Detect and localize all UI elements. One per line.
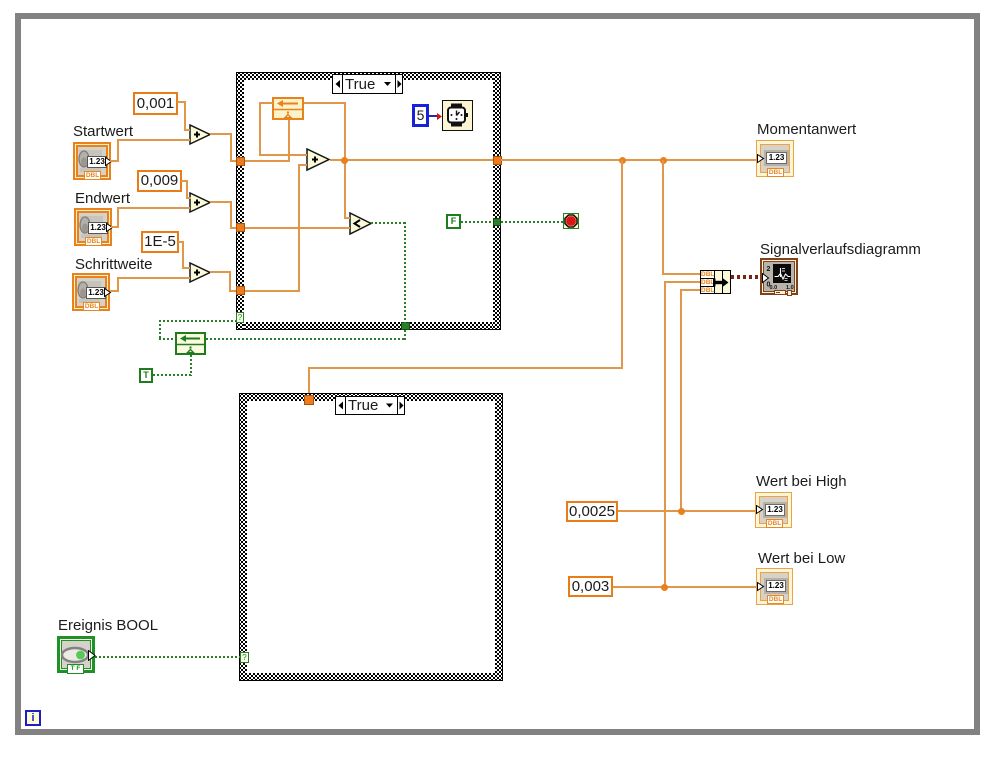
junction dot A4 output [341,157,348,164]
case structure 1 bottom border [236,322,501,330]
case structure 2 outline [239,393,503,394]
wire Schrittweite to A3 [110,290,119,292]
case structure 1 right border [493,72,501,330]
numeric constant 5 [412,104,429,127]
wire junction1 down to case structure 2 [621,160,623,368]
add function A1 [189,124,212,146]
main output wire TR to Momentanwert [501,159,757,161]
wire tunnel T1 to FN1 initializer [245,160,290,162]
wire bundle input 3 from high junction [681,289,700,291]
numeric constant 1E-5 [141,231,179,253]
wire tunnel T2 to LT bottom input [245,227,350,229]
label Startwert [73,124,133,140]
label Momentanwert [757,122,856,138]
wire FN1 left output to A4 top input [259,102,273,104]
wire 1E-5 to A3 [178,241,184,243]
wire A3 to tunnel T3 [210,271,231,273]
add function A3 [189,262,212,284]
numeric indicator Wert bei High [755,492,792,528]
wire 0,001 to A1 [177,101,186,103]
numeric constant 0,0025 [566,501,618,522]
numeric indicator Momentanwert [756,140,794,177]
case structure 1 selector label True [332,74,403,94]
window frame top bar [15,13,980,19]
case 2 selector terminal ? [240,652,249,663]
boolean constant T [139,368,153,383]
wire Startwert to A1 [110,160,119,162]
Startwert DBL tag [84,171,101,180]
junction dot high [678,508,685,515]
add function A4 [306,148,331,172]
junction dot low [661,584,668,591]
info icon i [25,710,41,726]
feedback node FN1 [272,97,304,120]
numeric indicator Wert bei Low [756,568,793,605]
add function A2 [189,192,212,214]
waveform chart terminal Signalverlaufsdiagramm [760,258,798,295]
case structure 1 outline [236,72,501,73]
boolean control Ereignis BOOL [57,636,95,673]
Schrittweite DBL tag [83,302,100,311]
wire bundle input 2 from low junction [665,281,700,283]
label Schrittweite [75,257,153,273]
numeric control Schrittweite [72,273,110,311]
Wert bei High DBL tag [766,519,783,528]
Ereignis BOOL TF tag [67,664,84,674]
Endwert DBL tag [85,237,102,246]
Momentanwert DBL tag [767,168,784,177]
green tunnel right [493,218,501,226]
window frame right bar [974,13,980,735]
wire A4 output to tunnel TR [330,159,493,161]
less-than function LT [349,212,373,236]
case structure 1 left border [236,72,244,330]
green dotted wire Ereignis BOOL to case 2 selector [95,656,240,658]
green dotted wire FN2 output to case selector ? [159,338,175,340]
tunnel TR output [493,156,502,165]
wire tunnel T3 to A4 bottom input [245,290,300,292]
wire 5 to wait [429,115,438,117]
wire A4 output loop to FN1 right input [304,102,346,104]
green dotted wire T to FN2 initializer [153,374,192,376]
Wert bei Low DBL tag [767,595,784,604]
junction dot 1 [619,157,626,164]
wire junction2 down to bundle input 1 [662,160,664,275]
window frame left bar [15,13,21,735]
case structure 2 selector label True [335,396,405,415]
label Wert bei High [756,474,847,490]
tunnel T2 [236,223,245,232]
wire junction to LT top input [344,160,346,219]
green dotted wire F to right green tunnel [461,221,493,223]
dynamic data wire bundle to chart [731,275,761,279]
wire A2 to tunnel T2 [210,201,232,203]
label Signalverlaufsdiagramm [760,242,921,258]
case structure 2 bottom border [239,673,503,681]
tunnel on case 2 top border [304,395,314,405]
green dotted wire LT output to bottom tunnel [371,222,406,224]
label Ereignis BOOL [58,618,158,634]
junction dot 2 [660,157,667,164]
merge signals bundle [700,270,731,294]
case structure 2 left border [239,393,247,681]
tunnel T1 [236,157,245,166]
stop terminal [563,213,579,229]
numeric constant 0,003 [568,576,613,597]
green tunnel bottom [401,322,410,330]
numeric constant 0,001 [133,92,178,115]
boolean constant F [446,214,461,229]
wire 0,009 to A2 [181,180,188,182]
wire 0,0025 to Wert bei High [618,510,757,512]
window frame bottom bar [15,729,980,735]
feedback node FN2 green [175,332,206,355]
Ereignis BOOL output arrow [88,650,96,661]
case selector terminal ? [236,312,244,323]
green dotted wire bottom tunnel to FN2 right input [404,330,406,340]
wire 0,003 to Wert bei Low [613,586,757,588]
numeric control Endwert [74,208,112,246]
numeric control Startwert [73,142,111,180]
case structure 2 top border [239,393,503,401]
numeric constant 0,009 [137,170,182,192]
tunnel T3 [236,286,245,295]
label Endwert [75,191,130,207]
wire Endwert to A2 [111,226,119,228]
wait ms function [442,100,473,131]
case structure 2 right border [495,393,503,681]
case structure 1 top border [236,72,501,80]
svg-text:2: 2 [767,266,771,273]
wire A1 to tunnel T1 [210,133,232,135]
label Wert bei Low [758,551,845,567]
green dotted wire right green tunnel to stop [501,221,563,223]
